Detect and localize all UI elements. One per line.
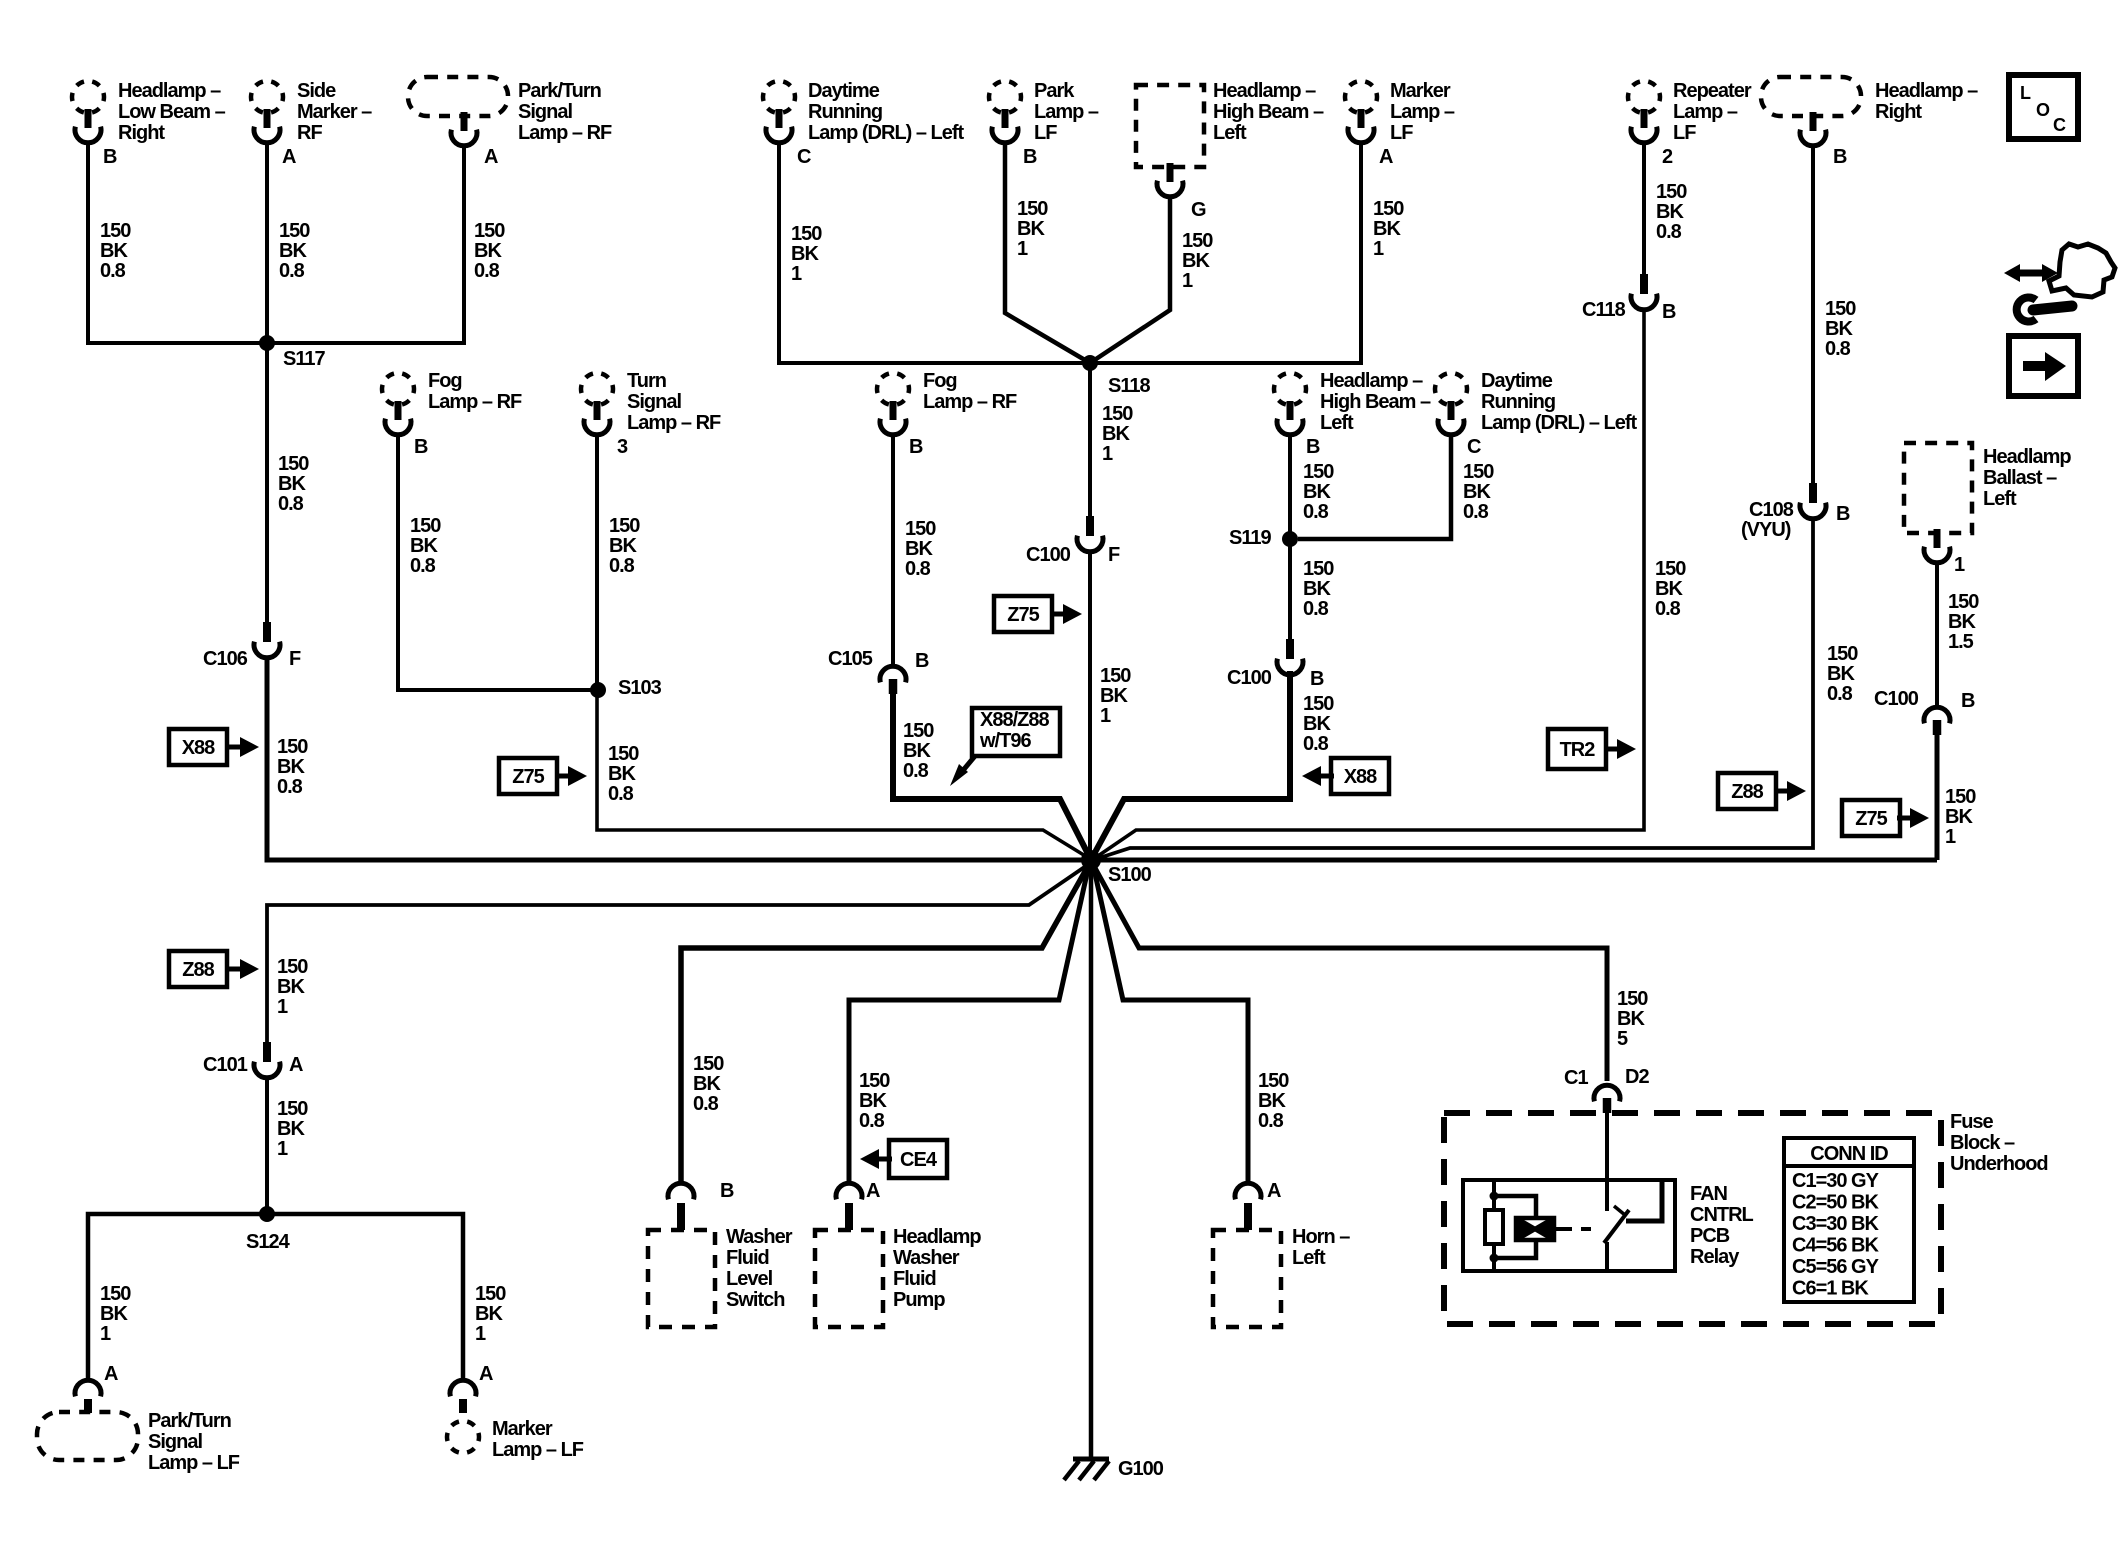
wire: S119 down to C100 pin B <box>1288 539 1292 639</box>
svg-text:Lamp – RF: Lamp – RF <box>923 391 1017 413</box>
svg-text:CONN ID: CONN ID <box>1810 1143 1888 1165</box>
svg-text:150: 150 <box>279 220 310 242</box>
svg-text:Repeater: Repeater <box>1673 80 1752 102</box>
svg-text:F: F <box>289 648 301 670</box>
svg-text:X88: X88 <box>1344 766 1377 788</box>
svg-text:Fluid: Fluid <box>893 1268 936 1290</box>
pin B (fog lamp RF 2) <box>909 436 923 458</box>
svg-text:Park: Park <box>1034 80 1075 102</box>
svg-text:150: 150 <box>277 956 308 978</box>
wire: S100 branch left at y905 down to C101/S124 <box>267 866 1086 1042</box>
pin A (side marker RF) <box>282 146 296 168</box>
icon: boxed right arrow <box>2009 336 2078 396</box>
pin B (park lamp LF) <box>1023 146 1037 168</box>
svg-text:Marker: Marker <box>492 1418 553 1440</box>
svg-text:Headlamp: Headlamp <box>1983 446 2071 468</box>
svg-text:Right: Right <box>1875 101 1922 123</box>
component: Washer Fluid Level Switch (connector + dashed box) <box>648 1183 793 1327</box>
wire: main horizontal right from S100 to ballast branch <box>1099 858 1937 863</box>
wire: S100 branch to fuse block (C1/D2) <box>1095 868 1607 1081</box>
svg-text:150: 150 <box>1017 198 1048 220</box>
svg-text:BK: BK <box>608 763 636 785</box>
wire label 150 BK 1 (DRL left) <box>791 223 822 285</box>
svg-text:0.8: 0.8 <box>474 260 500 282</box>
wire: park lamp LF down, diagonal to S118 <box>1005 144 1090 363</box>
svg-text:0.8: 0.8 <box>859 1110 885 1132</box>
svg-text:0.8: 0.8 <box>609 555 635 577</box>
wire label 150 BK 0.8 (repeater lower) <box>1655 558 1686 620</box>
svg-text:150: 150 <box>693 1053 724 1075</box>
svg-text:Headlamp –: Headlamp – <box>118 80 221 102</box>
lamp: Park/Turn Signal Lamp - RF (dashed oval + connector) <box>408 77 612 146</box>
svg-text:S124: S124 <box>246 1231 291 1253</box>
ground G100 <box>1064 1458 1164 1480</box>
wire: marker lamp LF down and left to S118 <box>1094 144 1361 363</box>
svg-text:BK: BK <box>1463 481 1491 503</box>
svg-text:BK: BK <box>1656 201 1684 223</box>
svg-text:150: 150 <box>1258 1070 1289 1092</box>
svg-text:0.8: 0.8 <box>1303 733 1329 755</box>
svg-text:150: 150 <box>1463 461 1494 483</box>
lamp: Park Lamp - LF (dashed circle + connector) <box>989 80 1099 144</box>
svg-text:Left: Left <box>1983 488 2017 510</box>
svg-text:Fuse: Fuse <box>1950 1111 1994 1133</box>
svg-text:150: 150 <box>905 518 936 540</box>
svg-text:1: 1 <box>1017 238 1028 260</box>
pin B (washer switch) <box>720 1180 734 1202</box>
svg-text:150: 150 <box>1656 181 1687 203</box>
svg-text:150: 150 <box>609 515 640 537</box>
svg-text:A: A <box>1267 1180 1281 1202</box>
svg-text:C105: C105 <box>828 648 873 670</box>
svg-text:150: 150 <box>1655 558 1686 580</box>
svg-text:150: 150 <box>100 1283 131 1305</box>
pin A (marker LF) <box>479 1363 493 1385</box>
svg-text:BK: BK <box>1303 578 1331 600</box>
wire: headlamp high beam left down, diagonal to S118 <box>1090 198 1170 363</box>
svg-text:Ballast –: Ballast – <box>1983 467 2057 489</box>
svg-text:0.8: 0.8 <box>608 783 634 805</box>
wire label 150 BK 1 (left branch) <box>277 956 308 1018</box>
svg-text:S118: S118 <box>1108 375 1150 397</box>
wire: C108 down then left to S100 <box>1096 517 1813 859</box>
wire: S124 horizontal to park/turn LF and marker LF <box>88 1214 463 1380</box>
svg-text:Washer: Washer <box>726 1226 793 1248</box>
svg-text:RF: RF <box>297 122 322 144</box>
junction S119 <box>1229 527 1298 549</box>
wire: turn signal RF down to S103 <box>595 436 599 690</box>
wire: C100 F down to S100 <box>1088 550 1092 860</box>
svg-text:BK: BK <box>1617 1008 1645 1030</box>
svg-text:Z75: Z75 <box>1855 808 1887 830</box>
svg-text:0.8: 0.8 <box>905 558 931 580</box>
svg-text:0.8: 0.8 <box>410 555 436 577</box>
wire: repeater lamp LF down to C118 <box>1642 144 1646 274</box>
svg-text:A: A <box>282 146 296 168</box>
svg-text:Headlamp –: Headlamp – <box>1875 80 1978 102</box>
svg-text:0.8: 0.8 <box>1656 221 1682 243</box>
pin 1 (headlamp ballast left) <box>1954 554 1965 576</box>
svg-text:150: 150 <box>1100 665 1131 687</box>
svg-text:C108: C108 <box>1749 499 1794 521</box>
svg-text:LF: LF <box>1673 122 1696 144</box>
lamp: Marker Lamp - LF (dashed circle + connector) <box>1345 80 1455 144</box>
svg-text:B: B <box>1306 436 1320 458</box>
svg-text:150: 150 <box>1373 198 1404 220</box>
svg-text:Lamp (DRL) – Left: Lamp (DRL) – Left <box>808 122 965 144</box>
svg-text:Low Beam –: Low Beam – <box>118 101 226 123</box>
svg-text:1: 1 <box>475 1323 486 1345</box>
lamp: Turn Signal Lamp - RF (dashed circle + connector) <box>581 370 721 435</box>
svg-text:X88: X88 <box>182 737 215 759</box>
svg-text:C101: C101 <box>203 1054 248 1076</box>
wire: S100 branch to horn left <box>1094 869 1248 1183</box>
svg-text:1: 1 <box>277 1138 288 1160</box>
svg-text:0.8: 0.8 <box>1463 501 1489 523</box>
wire: fog lamp RF down and right to S103 <box>398 436 594 690</box>
connector C105 pin B <box>828 648 929 694</box>
pin A (marker lamp LF) <box>1379 146 1393 168</box>
svg-text:0.8: 0.8 <box>1303 598 1329 620</box>
svg-text:C5=56 GY: C5=56 GY <box>1792 1256 1880 1278</box>
label box X88 pointing left at high beam wire <box>1302 758 1389 794</box>
wire label 150 BK 0.8 (repeater upper) <box>1656 181 1687 243</box>
label box Z75 pointing at turn signal wire <box>499 758 587 794</box>
svg-text:3: 3 <box>617 436 628 458</box>
label box Z75 pointing at C100 F wire <box>994 596 1082 632</box>
svg-text:1: 1 <box>100 1323 111 1345</box>
svg-text:Daytime: Daytime <box>1481 370 1553 392</box>
svg-text:Block –: Block – <box>1950 1132 2015 1154</box>
svg-text:BK: BK <box>905 538 933 560</box>
svg-text:A: A <box>866 1180 880 1202</box>
wire: high beam left 2 down to S119 <box>1288 436 1292 539</box>
connector C108 (VYU) pin B <box>1741 483 1850 541</box>
svg-text:S119: S119 <box>1229 527 1271 549</box>
svg-text:0.8: 0.8 <box>277 776 303 798</box>
svg-text:Lamp – LF: Lamp – LF <box>492 1439 584 1461</box>
svg-text:Right: Right <box>118 122 165 144</box>
wire label 150 BK 0.8 (headlamp right upper) <box>1825 298 1856 360</box>
svg-text:150: 150 <box>1303 693 1334 715</box>
svg-text:LF: LF <box>1390 122 1413 144</box>
svg-text:X88/Z88: X88/Z88 <box>980 709 1049 731</box>
wire: C105 down then right to S100 (thick) <box>893 694 1089 856</box>
svg-text:BK: BK <box>1017 218 1045 240</box>
svg-text:Running: Running <box>1481 391 1555 413</box>
wire label 150 BK 0.8 (fog lamp RF 2 lower) <box>903 720 934 782</box>
label box X88/Z88 w/T96 with diagonal arrow to S100 <box>950 708 1060 786</box>
svg-text:C3=30 BK: C3=30 BK <box>1792 1213 1879 1235</box>
svg-text:0.8: 0.8 <box>1655 598 1681 620</box>
svg-text:High Beam –: High Beam – <box>1320 391 1431 413</box>
svg-text:B: B <box>909 436 923 458</box>
svg-text:BK: BK <box>277 976 305 998</box>
svg-text:Headlamp: Headlamp <box>893 1226 981 1248</box>
junction S100 (multi-branch splice) <box>1081 850 1152 886</box>
svg-text:Signal: Signal <box>518 101 572 123</box>
connector C106 pin F <box>203 622 301 670</box>
svg-text:Fluid: Fluid <box>726 1247 769 1269</box>
pin A (park/turn RF) <box>484 146 498 168</box>
svg-text:Relay: Relay <box>1690 1246 1740 1268</box>
svg-text:0.8: 0.8 <box>1827 683 1853 705</box>
svg-text:Z75: Z75 <box>512 766 544 788</box>
svg-text:Z88: Z88 <box>182 959 214 981</box>
svg-text:C1: C1 <box>1564 1067 1588 1089</box>
svg-text:A: A <box>1379 146 1393 168</box>
wire label 150 BK 0.8 (S117 to C106) <box>278 453 309 515</box>
svg-text:G: G <box>1191 199 1206 221</box>
svg-text:TR2: TR2 <box>1560 739 1596 761</box>
svg-text:Fog: Fog <box>923 370 957 392</box>
wire label 150 BK 1 (ballast lower) <box>1945 786 1976 848</box>
svg-text:BK: BK <box>1182 250 1210 272</box>
svg-text:Lamp –: Lamp – <box>1673 101 1738 123</box>
svg-text:Lamp (DRL) – Left: Lamp (DRL) – Left <box>1481 412 1638 434</box>
svg-text:5: 5 <box>1617 1028 1628 1050</box>
svg-text:C106: C106 <box>203 648 248 670</box>
svg-text:B: B <box>1023 146 1037 168</box>
wire: headlamp low beam right to S117 <box>88 144 263 343</box>
wire: C118 down then left to S100 <box>1095 308 1644 858</box>
lamp: Daytime Running Lamp (DRL) - Left (dashed circle + connector) <box>763 80 965 144</box>
svg-text:A: A <box>484 146 498 168</box>
svg-text:BK: BK <box>279 240 307 262</box>
wire: park/turn RF down and left to S117 <box>267 147 464 343</box>
svg-text:B: B <box>915 650 929 672</box>
wire: S103 down then right to S100 <box>597 690 1087 857</box>
connector C101 pin A <box>203 1042 303 1078</box>
svg-text:BK: BK <box>1945 806 1973 828</box>
wire label 150 BK 0.8 (headlamp right lower) <box>1827 643 1858 705</box>
svg-text:Signal: Signal <box>148 1431 202 1453</box>
wire label 150 BK 0.8 (washer pump) <box>859 1070 890 1132</box>
svg-text:150: 150 <box>1102 403 1133 425</box>
wire: headlamp right down to C108 <box>1811 147 1815 483</box>
svg-text:A: A <box>289 1054 303 1076</box>
lamp: Fog Lamp - RF 2 (dashed circle + connector) <box>877 370 1017 435</box>
svg-text:BK: BK <box>474 240 502 262</box>
wire: C1 down into relay <box>1605 1113 1609 1180</box>
svg-text:BK: BK <box>903 740 931 762</box>
svg-text:1: 1 <box>1945 826 1956 848</box>
svg-text:Lamp – RF: Lamp – RF <box>518 122 612 144</box>
wire label 150 BK 0.8 (high beam 2 lower) <box>1303 693 1334 755</box>
svg-text:B: B <box>1662 301 1676 323</box>
wire label 150 BK 0.8 (low beam right) <box>100 220 131 282</box>
svg-text:0.8: 0.8 <box>1825 338 1851 360</box>
svg-text:0.8: 0.8 <box>1303 501 1329 523</box>
svg-text:FAN: FAN <box>1690 1183 1728 1205</box>
svg-text:Lamp – RF: Lamp – RF <box>627 412 721 434</box>
wire: DRL left down and right to S118 <box>779 144 1086 363</box>
wire: C101 down to S124 <box>265 1076 269 1214</box>
svg-text:Lamp – RF: Lamp – RF <box>428 391 522 413</box>
svg-text:BK: BK <box>475 1303 503 1325</box>
svg-text:1: 1 <box>1182 270 1193 292</box>
lamp: Marker Lamp - LF (connector + dashed circle) <box>447 1380 584 1461</box>
component: Horn - Left (connector + dashed box) <box>1213 1183 1350 1327</box>
svg-text:Turn: Turn <box>627 370 666 392</box>
svg-text:BK: BK <box>1303 713 1331 735</box>
wire: fog lamp RF 2 down to C105 <box>891 436 895 666</box>
svg-text:BK: BK <box>277 756 305 778</box>
svg-text:C100: C100 <box>1874 688 1919 710</box>
svg-text:Lamp – LF: Lamp – LF <box>148 1452 240 1474</box>
svg-text:150: 150 <box>1617 988 1648 1010</box>
svg-text:150: 150 <box>278 453 309 475</box>
junction S117 <box>259 335 325 370</box>
svg-text:Daytime: Daytime <box>808 80 880 102</box>
wire label 150 BK 0.8 (fog lamp RF 2 upper) <box>905 518 936 580</box>
svg-text:150: 150 <box>1303 461 1334 483</box>
svg-text:LF: LF <box>1034 122 1057 144</box>
wire label 150 BK 1 (S118 down) <box>1102 403 1133 465</box>
svg-text:0.8: 0.8 <box>1258 1110 1284 1132</box>
wire label 150 BK 0.8 (DRL left 2) <box>1463 461 1494 523</box>
svg-text:BK: BK <box>277 1118 305 1140</box>
svg-text:C6=1 BK: C6=1 BK <box>1792 1278 1869 1300</box>
svg-text:BK: BK <box>1825 318 1853 340</box>
svg-text:150: 150 <box>277 736 308 758</box>
svg-text:BK: BK <box>859 1090 887 1112</box>
svg-text:High Beam –: High Beam – <box>1213 101 1324 123</box>
wire label 150 BK 1 (park/turn LF) <box>100 1283 131 1345</box>
legend box LOC <box>2009 75 2078 139</box>
pin A (park/turn LF) <box>104 1363 118 1385</box>
wire label 150 BK 0.8 (high beam 2 upper) <box>1303 461 1334 523</box>
component: Headlamp Washer Fluid Pump (connector + dashed box) <box>815 1183 981 1327</box>
wire label 150 BK 1 (below C101) <box>277 1098 308 1160</box>
wire label 150 BK 0.8 (horn) <box>1258 1070 1289 1132</box>
svg-text:1: 1 <box>1102 443 1113 465</box>
lamp: Repeater Lamp - LF (dashed circle + connector) <box>1628 80 1752 144</box>
svg-text:2: 2 <box>1662 146 1673 168</box>
table: CONN ID <box>1784 1138 1914 1302</box>
lamp: Headlamp - High Beam - Left (dashed box + connector) <box>1136 80 1324 197</box>
svg-text:BK: BK <box>1827 663 1855 685</box>
pin C (DRL left 2) <box>1467 436 1481 458</box>
svg-text:150: 150 <box>791 223 822 245</box>
svg-text:D2: D2 <box>1625 1066 1649 1088</box>
svg-text:A: A <box>479 1363 493 1385</box>
component: Headlamp Ballast - Left (dashed box + connector) <box>1904 443 2071 563</box>
svg-text:B: B <box>1833 146 1847 168</box>
svg-text:1: 1 <box>1100 705 1111 727</box>
label box Z88 pointing at headlamp right wire <box>1718 773 1806 809</box>
lamp: Daytime Running Lamp (DRL) - Left 2 (dashed circle + connector) <box>1435 370 1638 435</box>
svg-text:Underhood: Underhood <box>1950 1153 2048 1175</box>
wire label 150 BK 0.8 (below C106) <box>277 736 308 798</box>
svg-text:Horn –: Horn – <box>1292 1226 1350 1248</box>
svg-text:Marker: Marker <box>1390 80 1451 102</box>
svg-text:150: 150 <box>859 1070 890 1092</box>
wire: C100 B down then left to S100 (thick) <box>1093 671 1290 856</box>
svg-text:0.8: 0.8 <box>903 760 929 782</box>
svg-text:Side: Side <box>297 80 336 102</box>
svg-text:S100: S100 <box>1108 864 1152 886</box>
wire: C100 B right down to main horizontal <box>1935 735 1940 860</box>
svg-text:S117: S117 <box>283 348 325 370</box>
svg-text:A: A <box>104 1363 118 1385</box>
lamp: Headlamp - High Beam - Left 2 (dashed circle + connector) <box>1274 370 1431 435</box>
relay: FAN CNTRL PCB Relay (box and internals) <box>1463 1114 1754 1271</box>
svg-text:BK: BK <box>410 535 438 557</box>
junction S103 <box>590 677 662 699</box>
wire label 150 BK 0.8 (turn signal upper) <box>609 515 640 577</box>
wire: S100 branch to headlamp washer fluid pump <box>849 869 1088 1183</box>
pin 3 (turn signal RF) <box>617 436 628 458</box>
svg-text:BK: BK <box>1655 578 1683 600</box>
svg-text:150: 150 <box>100 220 131 242</box>
svg-text:0.8: 0.8 <box>278 493 304 515</box>
connector C100 pin F <box>1026 516 1120 566</box>
label box Z75 pointing at ballast wire <box>1842 800 1929 836</box>
svg-text:150: 150 <box>1827 643 1858 665</box>
junction S124 <box>246 1206 291 1253</box>
svg-text:(VYU): (VYU) <box>1741 519 1791 541</box>
svg-text:Left: Left <box>1292 1247 1326 1269</box>
wire: S118 down to C100 F <box>1088 363 1092 516</box>
wire: S100 branch to washer fluid level switch <box>681 868 1087 1183</box>
svg-text:B: B <box>1310 668 1324 690</box>
svg-text:BK: BK <box>693 1073 721 1095</box>
junction S118 <box>1082 355 1150 397</box>
wire label 150 BK 0.8 (washer switch) <box>693 1053 724 1115</box>
svg-text:CE4: CE4 <box>900 1149 938 1171</box>
lamp: Headlamp - Right (dashed oval + connector) <box>1761 77 1978 146</box>
svg-text:1.5: 1.5 <box>1948 631 1974 653</box>
svg-text:150: 150 <box>1303 558 1334 580</box>
icon: hand with arrows and wrench <box>2004 244 2115 322</box>
svg-text:150: 150 <box>903 720 934 742</box>
pin B (fog lamp RF 1) <box>414 436 428 458</box>
svg-text:Signal: Signal <box>627 391 681 413</box>
wire label 150 BK 0.8 (park/turn RF) <box>474 220 505 282</box>
svg-text:BK: BK <box>278 473 306 495</box>
wire: DRL left 2 down then left to S119 <box>1298 436 1451 539</box>
pin 2 (repeater lamp LF) <box>1662 146 1673 168</box>
lamp: Side Marker - RF (dashed circle + connector) <box>251 80 372 144</box>
svg-text:G100: G100 <box>1118 1458 1164 1480</box>
svg-text:Z88: Z88 <box>1731 781 1763 803</box>
svg-text:C: C <box>797 146 811 168</box>
svg-text:B: B <box>1836 503 1850 525</box>
wire label 150 BK 1 (marker lamp LF) <box>1373 198 1404 260</box>
svg-text:C4=56 BK: C4=56 BK <box>1792 1235 1879 1257</box>
svg-text:Washer: Washer <box>893 1247 960 1269</box>
svg-text:C100: C100 <box>1026 544 1071 566</box>
svg-text:Park/Turn: Park/Turn <box>148 1410 231 1432</box>
svg-text:Left: Left <box>1320 412 1354 434</box>
wire: S100 down to G100 ground <box>1089 860 1094 1458</box>
svg-text:1: 1 <box>1954 554 1965 576</box>
wire: side marker RF down to S117 <box>265 144 269 343</box>
svg-text:150: 150 <box>475 1283 506 1305</box>
svg-text:150: 150 <box>1945 786 1976 808</box>
pin B (high beam left 2) <box>1306 436 1320 458</box>
svg-text:Lamp –: Lamp – <box>1390 101 1455 123</box>
svg-text:BK: BK <box>1373 218 1401 240</box>
svg-text:C118: C118 <box>1582 299 1626 321</box>
svg-text:0.8: 0.8 <box>100 260 126 282</box>
svg-text:S103: S103 <box>618 677 662 699</box>
wire: S117 down to C106 <box>265 343 269 622</box>
svg-text:BK: BK <box>1303 481 1331 503</box>
svg-text:150: 150 <box>410 515 441 537</box>
svg-text:C: C <box>1467 436 1481 458</box>
